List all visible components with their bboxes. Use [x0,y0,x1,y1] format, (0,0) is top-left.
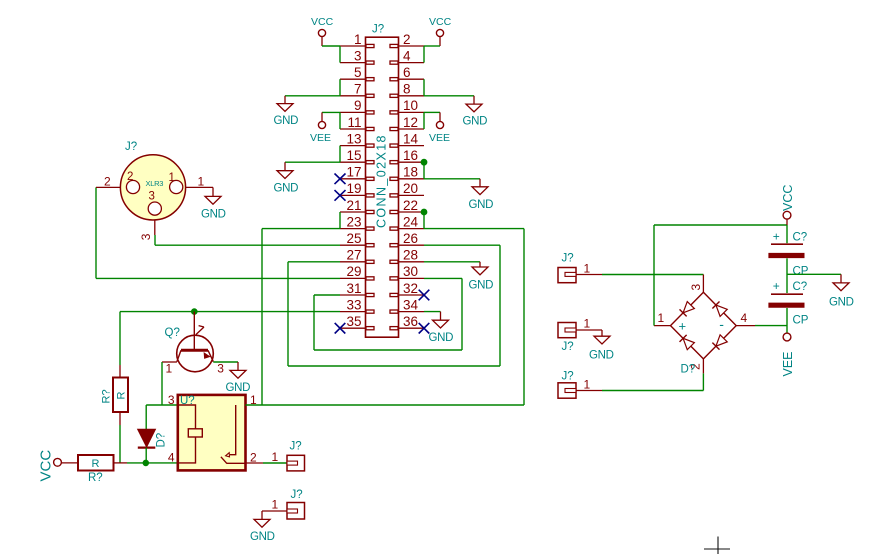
svg-text:VEE: VEE [429,132,450,144]
svg-text:1: 1 [272,498,279,512]
bridge diode top-left [683,302,694,313]
junction pin16 [421,159,427,165]
pin 32 [399,294,425,296]
svg-text:10: 10 [403,98,418,113]
wire pin33 left [120,311,340,313]
wire down right of pin24 [523,229,525,405]
svg-text:CP: CP [793,315,809,327]
capacitor C? (bottom) [771,293,803,295]
svg-text:C?: C? [793,232,808,244]
wire pin30 column up [461,278,463,350]
wire pins 22-24 tie [423,212,425,229]
svg-text:3: 3 [217,362,224,376]
pin 22 [399,211,425,213]
ground (right, pins 6-8) [473,96,475,104]
svg-text:11: 11 [347,115,361,130]
pin 24 [399,228,425,230]
no-connect pin 19 [335,190,346,201]
wire J? pin1 stub [576,329,602,331]
svg-text:VEE: VEE [310,132,331,144]
pin 1 [340,45,366,47]
svg-text:GND: GND [201,209,226,221]
svg-text:17: 17 [346,165,361,180]
pin 16 [399,161,425,163]
svg-text:CP: CP [793,266,809,278]
wire pins 5-7 tie [339,79,341,96]
wire down to relay pin 1 [261,229,263,405]
XLR pin 3 lead [154,220,156,235]
no-connect pin 35 [335,323,346,334]
svg-text:1: 1 [198,175,205,189]
bridge diode bottom-right [716,335,727,346]
wire J? to bridge pin3 [576,274,602,276]
svg-text:30: 30 [403,264,418,279]
wire VCC to pin2 [424,45,440,47]
svg-text:5: 5 [354,65,362,80]
wire pins 9-11 tie [339,112,341,129]
svg-text:9: 9 [354,98,362,113]
ground (right, pin 34) [440,312,442,321]
svg-text:R?: R? [88,472,103,484]
svg-text:VCC: VCC [781,185,795,211]
power VEE (right bottom) [783,333,791,341]
no-connect pin 32 [419,290,430,301]
bridge pin2 lead [702,359,704,373]
pin 4 [399,62,425,64]
ground (right, pin 18) [479,179,481,187]
ground (right, pin 28) [479,262,481,267]
svg-text:GND: GND [463,116,488,128]
svg-text:J?: J? [125,141,137,153]
svg-text:22: 22 [403,198,418,213]
connector J? CONN_02X18 body [366,37,399,337]
svg-text:31: 31 [346,281,361,296]
wire pins 6-8 tie [423,79,425,96]
svg-text:3: 3 [149,191,155,203]
svg-text:D?: D? [681,364,696,376]
svg-text:C?: C? [793,281,808,293]
svg-text:2: 2 [127,171,133,183]
wire VCC to pin1 [322,45,340,47]
pin 2 [399,45,425,47]
svg-text:Q?: Q? [165,327,180,339]
XLR pin 2 contact [126,180,139,193]
svg-text:J?: J? [291,489,303,501]
svg-text:4: 4 [168,451,175,465]
svg-text:R?: R? [101,389,113,403]
wire pins 13-15 tie [339,146,341,163]
svg-text:14: 14 [403,131,419,146]
wire pin25 to XLR pin3 [155,244,340,246]
svg-text:J?: J? [562,253,574,265]
svg-text:23: 23 [346,214,361,229]
wire Q? pin3 to GND [213,361,238,363]
wire pin15 to GND [285,161,340,163]
wire R? bottom [119,412,121,425]
connector J? (right bottom) [558,383,576,398]
pin 11 [340,128,366,130]
pin 9 [340,111,366,113]
wire VEE to pin9 [322,111,340,113]
bridge pin4 lead [736,325,755,327]
svg-text:XLR3: XLR3 [146,179,164,188]
ground (XLR pin 1) [212,187,214,196]
pin 12 [399,128,425,130]
cursor crosshair [704,548,730,550]
pin 17 [340,178,366,180]
wire pin7 to GND [285,95,340,97]
svg-text:27: 27 [346,248,361,263]
svg-text:4: 4 [403,48,411,63]
pin 26 [399,244,425,246]
pin 19 [340,194,366,196]
wire pin31 down [313,295,315,350]
svg-text:J?: J? [290,441,302,453]
wire pin29 to XLR pin2 [96,277,340,279]
svg-text:J?: J? [562,341,574,353]
wire pin23 left [262,228,340,230]
wire pin8 to GND [424,95,474,97]
svg-text:GND: GND [429,332,454,344]
wire diode anode to relay pin3 [146,404,178,406]
pin 33 [340,311,366,313]
ground (bottom J?) [261,511,263,519]
svg-text:J?: J? [372,24,384,36]
wire pin27 down [287,262,289,366]
svg-text:12: 12 [403,115,418,130]
wire down to resistor R? [119,312,121,365]
wire pins 10-12 tie [423,112,425,129]
XLR pin 2 lead [96,186,121,188]
transistor Q? [177,335,214,372]
svg-text:1: 1 [584,262,591,276]
relay U? [178,395,246,471]
svg-text:26: 26 [403,231,418,246]
wire pins 21-23 tie [339,212,341,229]
svg-text:15: 15 [346,148,361,163]
svg-text:1: 1 [584,378,591,392]
resistor R? (horizontal) [61,462,78,464]
wire VEE to pin10 [424,111,440,113]
svg-text:20: 20 [403,181,418,196]
svg-text:3: 3 [139,233,153,240]
pin 27 [340,261,366,263]
pin 14 [399,145,425,147]
wire pin18 to GND [424,178,480,180]
XLR pin 1 contact [170,180,183,193]
svg-text:GND: GND [469,280,494,292]
resistor R? (vertical) [113,378,128,413]
svg-text:J?: J? [562,371,574,383]
svg-text:GND: GND [274,115,299,127]
wire across to pin26 column [288,365,500,367]
svg-text:1: 1 [354,32,362,47]
power VEE (right) [439,112,441,121]
svg-text:+: + [773,279,780,293]
svg-text:35: 35 [346,314,361,329]
bridge diode bottom-left [683,338,694,349]
bridge diode top-right [716,305,727,316]
svg-text:R: R [115,392,127,400]
junction diode cathode [143,460,149,466]
pin 21 [340,211,366,213]
svg-text:VEE: VEE [781,351,795,376]
pin 6 [399,78,425,80]
power VCC (right) [783,211,791,219]
svg-text:7: 7 [354,82,362,97]
svg-text:33: 33 [346,297,361,312]
no-connect pin 36 [419,323,430,334]
ground (capacitor midpoint) [840,274,842,283]
bridge pin3 lead [702,275,704,293]
svg-text:29: 29 [346,264,361,279]
diode bridge D? [671,292,737,359]
pin 7 [340,95,366,97]
ground (left, pins 5-7) [284,96,286,104]
svg-text:GND: GND [274,182,299,194]
no-connect pin 17 [335,174,346,185]
svg-text:4: 4 [741,311,748,325]
power VCC (bottom left) [54,458,62,466]
svg-text:GND: GND [829,297,854,309]
pin 34 [399,311,425,313]
power VEE (left) [321,112,323,121]
pin 10 [399,111,425,113]
pin 3 [340,62,366,64]
svg-text:-: - [719,316,724,332]
pin 8 [399,95,425,97]
svg-text:VCC: VCC [311,16,334,28]
pin 13 [340,145,366,147]
svg-text:2: 2 [403,32,411,47]
wire cap bottom to VEE [786,308,788,333]
connector J? (right middle grounded) [558,323,576,338]
svg-text:+: + [679,319,687,334]
wire to relay pin 1 node [262,404,524,406]
junction pin22 [421,209,427,215]
svg-text:32: 32 [403,281,418,296]
pin 28 [399,261,425,263]
wire pin26 column up [499,245,501,366]
pin 35 [340,327,366,329]
svg-text:GND: GND [226,382,251,394]
wire pin31 left [314,294,340,296]
ground (left, pins 13-15) [284,162,286,171]
bridge pin1 lead [654,325,671,327]
wire cap midpoint to GND [787,273,841,275]
svg-text:19: 19 [346,181,361,196]
wire pin26 [424,244,500,246]
pin 31 [340,294,366,296]
wire pins 16-18 tie [423,162,425,179]
svg-text:6: 6 [403,65,411,80]
XLR pin 1 lead to GND [186,186,213,188]
wire pins 2-4 tie [423,46,425,63]
connector J? (right top) [558,268,576,283]
svg-text:3: 3 [354,48,362,63]
wire J? pin1 to GND [262,510,287,512]
capacitor C? (top) [786,225,788,243]
wire between capacitors [786,258,788,293]
pin 15 [340,161,366,163]
svg-text:R: R [92,458,100,470]
svg-text:GND: GND [589,350,614,362]
connector J? (bottom grounded) [287,503,305,520]
svg-text:2: 2 [104,175,111,189]
pin 29 [340,277,366,279]
svg-text:D?: D? [155,433,167,448]
svg-text:VCC: VCC [429,16,452,28]
wire bridge pin2 down [702,373,704,390]
svg-text:1: 1 [166,362,173,376]
diode D? [145,405,147,429]
connector J? (relay output) [287,455,305,471]
svg-text:GND: GND [250,531,275,543]
svg-text:16: 16 [403,148,418,163]
wire J? to bridge pin2 [576,390,602,392]
pin 36 [399,327,425,329]
svg-text:3: 3 [689,284,703,291]
wire across to pin30 column [314,349,462,351]
wire pin24 right [424,228,524,230]
svg-text:1: 1 [658,311,665,325]
svg-text:28: 28 [403,248,418,263]
svg-text:1: 1 [169,172,175,184]
svg-text:+: + [773,230,780,244]
wire bridge pin4 to caps [755,325,787,327]
svg-text:34: 34 [403,297,419,312]
svg-text:CONN_02X18: CONN_02X18 [375,134,389,228]
pin 18 [399,178,425,180]
pin 5 [340,78,366,80]
wire relay pin1 [246,404,263,406]
wire pin34 to GND [424,311,441,313]
svg-text:1: 1 [272,450,279,464]
svg-text:1: 1 [584,317,591,331]
svg-text:13: 13 [346,131,361,146]
power VCC (top right) [436,29,443,36]
svg-text:36: 36 [403,314,418,329]
ground (transistor) [237,362,239,370]
XLR pin 3 contact [148,202,161,215]
svg-text:25: 25 [346,231,361,246]
pin 25 [340,244,366,246]
wire pin28 to GND [424,261,480,263]
wire bridge pin1 to VCC rail [653,225,655,326]
junction transistor collector [192,309,198,315]
svg-text:8: 8 [403,82,411,97]
svg-text:3: 3 [168,393,175,407]
pin 30 [399,277,425,279]
svg-text:GND: GND [469,199,494,211]
wire pin27 left [288,261,340,263]
svg-text:21: 21 [346,198,361,213]
pin 20 [399,194,425,196]
wire pin30 [424,277,462,279]
wire Q? pin1 (base) [162,361,177,363]
svg-text:24: 24 [403,214,419,229]
pin 23 [340,228,366,230]
ground (right middle J?) [601,330,603,336]
svg-text:VCC: VCC [38,450,55,482]
power VCC (top left) [318,29,325,36]
wire pins 1-3 tie [339,46,341,63]
wire relay pin2 to J? [246,462,264,464]
connector J? XLR3 body [120,155,185,220]
svg-text:18: 18 [403,165,418,180]
wire R to relay pin4 [114,462,128,464]
